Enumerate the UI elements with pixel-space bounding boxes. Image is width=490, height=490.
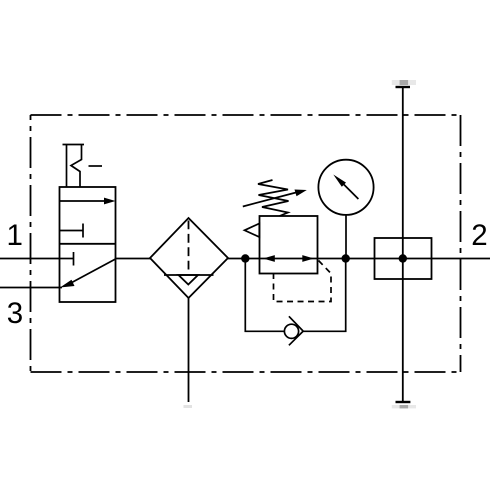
regulator pilot feedback dashed line bbox=[274, 261, 332, 302]
detent dash bbox=[89, 165, 103, 167]
valve upper position blocked port bbox=[60, 224, 84, 238]
distributor block bbox=[375, 238, 432, 279]
check valve bbox=[284, 316, 302, 345]
regulator adjustment spring bbox=[258, 180, 289, 216]
wire regulator to node B bbox=[318, 258, 375, 260]
bypass wire right up bbox=[303, 259, 346, 332]
branch bottom stub mark bbox=[392, 405, 416, 408]
pressure regulator body bbox=[260, 216, 318, 274]
regulator adjustability arrow bbox=[243, 190, 307, 207]
port 1 wire bbox=[0, 258, 60, 260]
valve upper position flow arrow bbox=[60, 198, 116, 205]
valve lower position exhaust path 2 to 3 bbox=[60, 259, 116, 288]
branch bottom T end bbox=[396, 401, 411, 403]
branch top stub mark bbox=[392, 80, 416, 85]
regulator flow line with arrows bbox=[260, 255, 318, 262]
pressure gauge bbox=[318, 160, 373, 215]
filter condensate drain wire bbox=[188, 298, 190, 402]
wire valve outlet to filter bbox=[116, 258, 151, 260]
svg-text:2: 2 bbox=[471, 219, 487, 252]
branch top T end bbox=[396, 86, 411, 88]
on-off valve body bbox=[60, 187, 116, 302]
regulator relief vent triangle bbox=[245, 224, 260, 238]
valve manual actuator with detent bbox=[63, 145, 85, 188]
port 3 wire bbox=[0, 287, 62, 289]
junction node B bbox=[342, 254, 350, 262]
svg-text:1: 1 bbox=[6, 219, 22, 252]
drain stub mark bbox=[184, 405, 193, 408]
vertical branch line bbox=[402, 87, 404, 402]
enclosure dash-dot boundary bbox=[31, 115, 461, 372]
wire gauge stem bbox=[345, 215, 347, 259]
wire node B to port 2 bbox=[375, 258, 490, 260]
junction node A bbox=[241, 254, 249, 262]
junction node C bbox=[399, 254, 407, 262]
valve lower position blocked port 1 bbox=[60, 252, 74, 266]
svg-text:3: 3 bbox=[7, 297, 23, 330]
filter with water separator bbox=[150, 218, 228, 298]
wire filter to regulator bbox=[228, 258, 260, 260]
bypass wire left down bbox=[245, 259, 284, 332]
